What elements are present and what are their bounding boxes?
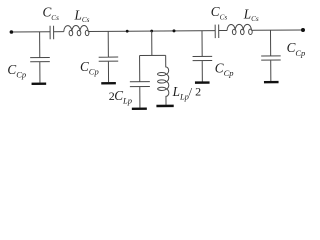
capacitor C_Cp shunt 2 xyxy=(98,31,118,84)
svg-text:CLp: CLp xyxy=(114,88,132,106)
capacitor 2C_Lp branch xyxy=(130,55,150,110)
svg-text:CCp: CCp xyxy=(7,62,26,80)
wire center branch stem and tee xyxy=(139,31,165,56)
capacitor C_Cp shunt 3 xyxy=(192,31,212,84)
capacitor C_Cp shunt 1 xyxy=(30,32,50,85)
svg-text:CCp: CCp xyxy=(80,59,99,77)
capacitor C_Cs series 2 xyxy=(215,25,219,39)
capacitor C_Cs series 1 xyxy=(50,26,54,40)
svg-text:LLp: LLp xyxy=(172,84,189,101)
wire main horizontal line xyxy=(11,30,303,32)
svg-text:CCs: CCs xyxy=(43,4,60,22)
node dot between resonator and section 2 xyxy=(172,29,175,32)
inductor L_Cs series 2 xyxy=(227,24,252,34)
node right terminal dot xyxy=(301,28,305,32)
node dot between section 1 and resonator xyxy=(126,30,129,33)
node junction dot of center branch xyxy=(150,30,153,33)
svg-text:LCs: LCs xyxy=(74,7,90,24)
inductor L_Lp/2 branch xyxy=(156,55,174,107)
inductor L_Cs series 1 xyxy=(64,25,89,35)
svg-text:CCs: CCs xyxy=(211,4,228,21)
node left terminal dot xyxy=(10,30,14,34)
svg-text:LCs: LCs xyxy=(243,6,259,23)
svg-text:/ 2: / 2 xyxy=(189,85,201,99)
svg-text:CCp: CCp xyxy=(215,60,234,78)
svg-text:CCp: CCp xyxy=(287,40,306,58)
capacitor C_Cp shunt 4 xyxy=(261,30,281,83)
